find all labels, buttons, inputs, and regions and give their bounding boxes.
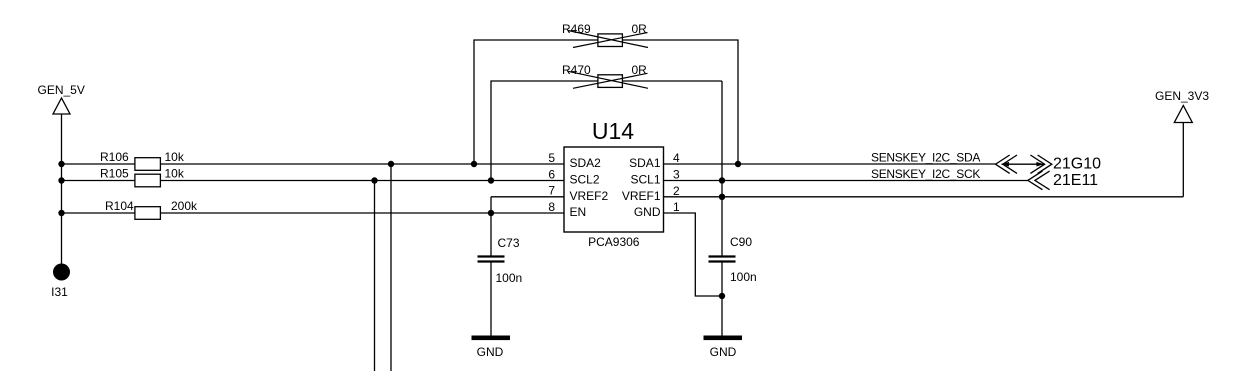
wire C90 vertical upper	[721, 81, 723, 256]
node SCL1/R470	[719, 177, 725, 183]
svg-text:R470: R470	[562, 63, 591, 77]
resistor R104	[135, 207, 161, 220]
resistor R105	[135, 174, 161, 187]
node GEN_5V/R104	[58, 210, 64, 216]
svg-text:2: 2	[673, 184, 680, 198]
svg-text:R104: R104	[105, 199, 134, 213]
svg-text:R105: R105	[100, 167, 129, 181]
svg-text:100n: 100n	[496, 271, 523, 285]
resistor R469	[598, 34, 623, 47]
svg-text:GND: GND	[710, 345, 737, 359]
svg-text:SENSKEY_I2C_SDA: SENSKEY_I2C_SDA	[871, 151, 980, 165]
svg-text:GEN_3V3: GEN_3V3	[1155, 89, 1209, 103]
node VREF1/C90	[719, 194, 725, 200]
svg-text:PCA9306: PCA9306	[588, 235, 640, 249]
svg-text:21G10: 21G10	[1053, 156, 1101, 173]
svg-text:10k: 10k	[165, 150, 185, 164]
node SCL2/R470	[488, 177, 494, 183]
power symbol GEN_3V3	[1174, 106, 1192, 197]
svg-text:200k: 200k	[171, 199, 198, 213]
wire EN row	[62, 212, 565, 214]
svg-text:I31: I31	[51, 285, 68, 299]
capacitor C73	[478, 257, 505, 262]
wire VREF2 stub	[491, 196, 564, 198]
op-amp U14 box	[564, 147, 664, 232]
node SDA2 branch	[388, 161, 394, 167]
svg-text:1: 1	[673, 200, 680, 214]
svg-text:EN: EN	[570, 205, 587, 219]
svg-text:0R: 0R	[632, 22, 648, 36]
off-page connector SDA bidirectional	[996, 155, 1052, 173]
svg-text:SENSKEY_I2C_SCK: SENSKEY_I2C_SCK	[871, 167, 980, 181]
svg-text:VREF2: VREF2	[570, 189, 609, 203]
wire GND pin elbow	[664, 213, 723, 296]
svg-text:C73: C73	[498, 236, 520, 250]
wire R469 loop	[474, 40, 738, 164]
wire C73 lower	[490, 262, 492, 337]
svg-text:SCL2: SCL2	[570, 173, 600, 187]
wire SDA1 row	[664, 163, 996, 165]
wire VREF1 row to GEN_3V3	[664, 196, 1184, 198]
node I31	[53, 264, 70, 281]
svg-text:U14: U14	[592, 118, 634, 144]
svg-text:SDA1: SDA1	[629, 156, 661, 170]
svg-text:7: 7	[548, 184, 555, 198]
wire SCL2 branch down	[374, 181, 376, 371]
ground C90	[704, 336, 743, 341]
wire SDA2 branch down	[390, 164, 392, 371]
wire SDA2 row	[62, 163, 565, 165]
svg-text:SCL1: SCL1	[630, 173, 660, 187]
node SDA2/R469	[471, 161, 477, 167]
svg-text:GEN_5V: GEN_5V	[38, 83, 85, 97]
svg-text:3: 3	[673, 168, 680, 182]
svg-text:4: 4	[673, 151, 680, 165]
wire C90 vertical lower	[721, 262, 723, 337]
node GEN_5V/R106	[58, 161, 64, 167]
node GEN_5V/R105	[58, 177, 64, 183]
svg-text:100n: 100n	[730, 270, 757, 284]
off-page connector SCK input	[1028, 171, 1050, 190]
svg-text:SDA2: SDA2	[570, 156, 602, 170]
svg-text:8: 8	[548, 200, 555, 214]
node SDA1/R469	[735, 161, 741, 167]
svg-text:6: 6	[548, 167, 555, 181]
svg-text:0R: 0R	[632, 63, 648, 77]
svg-text:GND: GND	[634, 205, 661, 219]
svg-text:21E11: 21E11	[1053, 172, 1098, 189]
svg-text:VREF1: VREF1	[622, 189, 661, 203]
svg-text:GND: GND	[477, 345, 504, 359]
resistor R470	[598, 75, 623, 88]
svg-text:10k: 10k	[165, 167, 185, 181]
node SCL2 branch	[371, 177, 377, 183]
capacitor C90	[709, 257, 736, 262]
ground C73	[472, 336, 511, 341]
wire VREF2 elbow down to EN and C73	[490, 197, 492, 256]
wire R470 loop	[491, 81, 722, 181]
wire SCL2 row	[62, 180, 565, 182]
svg-text:C90: C90	[730, 235, 752, 249]
svg-text:R106: R106	[100, 150, 129, 164]
resistor R106	[135, 158, 161, 171]
wire SCL1 row	[664, 180, 1028, 182]
node GND/C90	[719, 293, 725, 299]
power symbol GEN_5V	[53, 98, 70, 264]
svg-text:R469: R469	[562, 22, 591, 36]
node EN/C73	[488, 210, 494, 216]
svg-text:5: 5	[548, 151, 555, 165]
junction dots	[58, 161, 741, 299]
